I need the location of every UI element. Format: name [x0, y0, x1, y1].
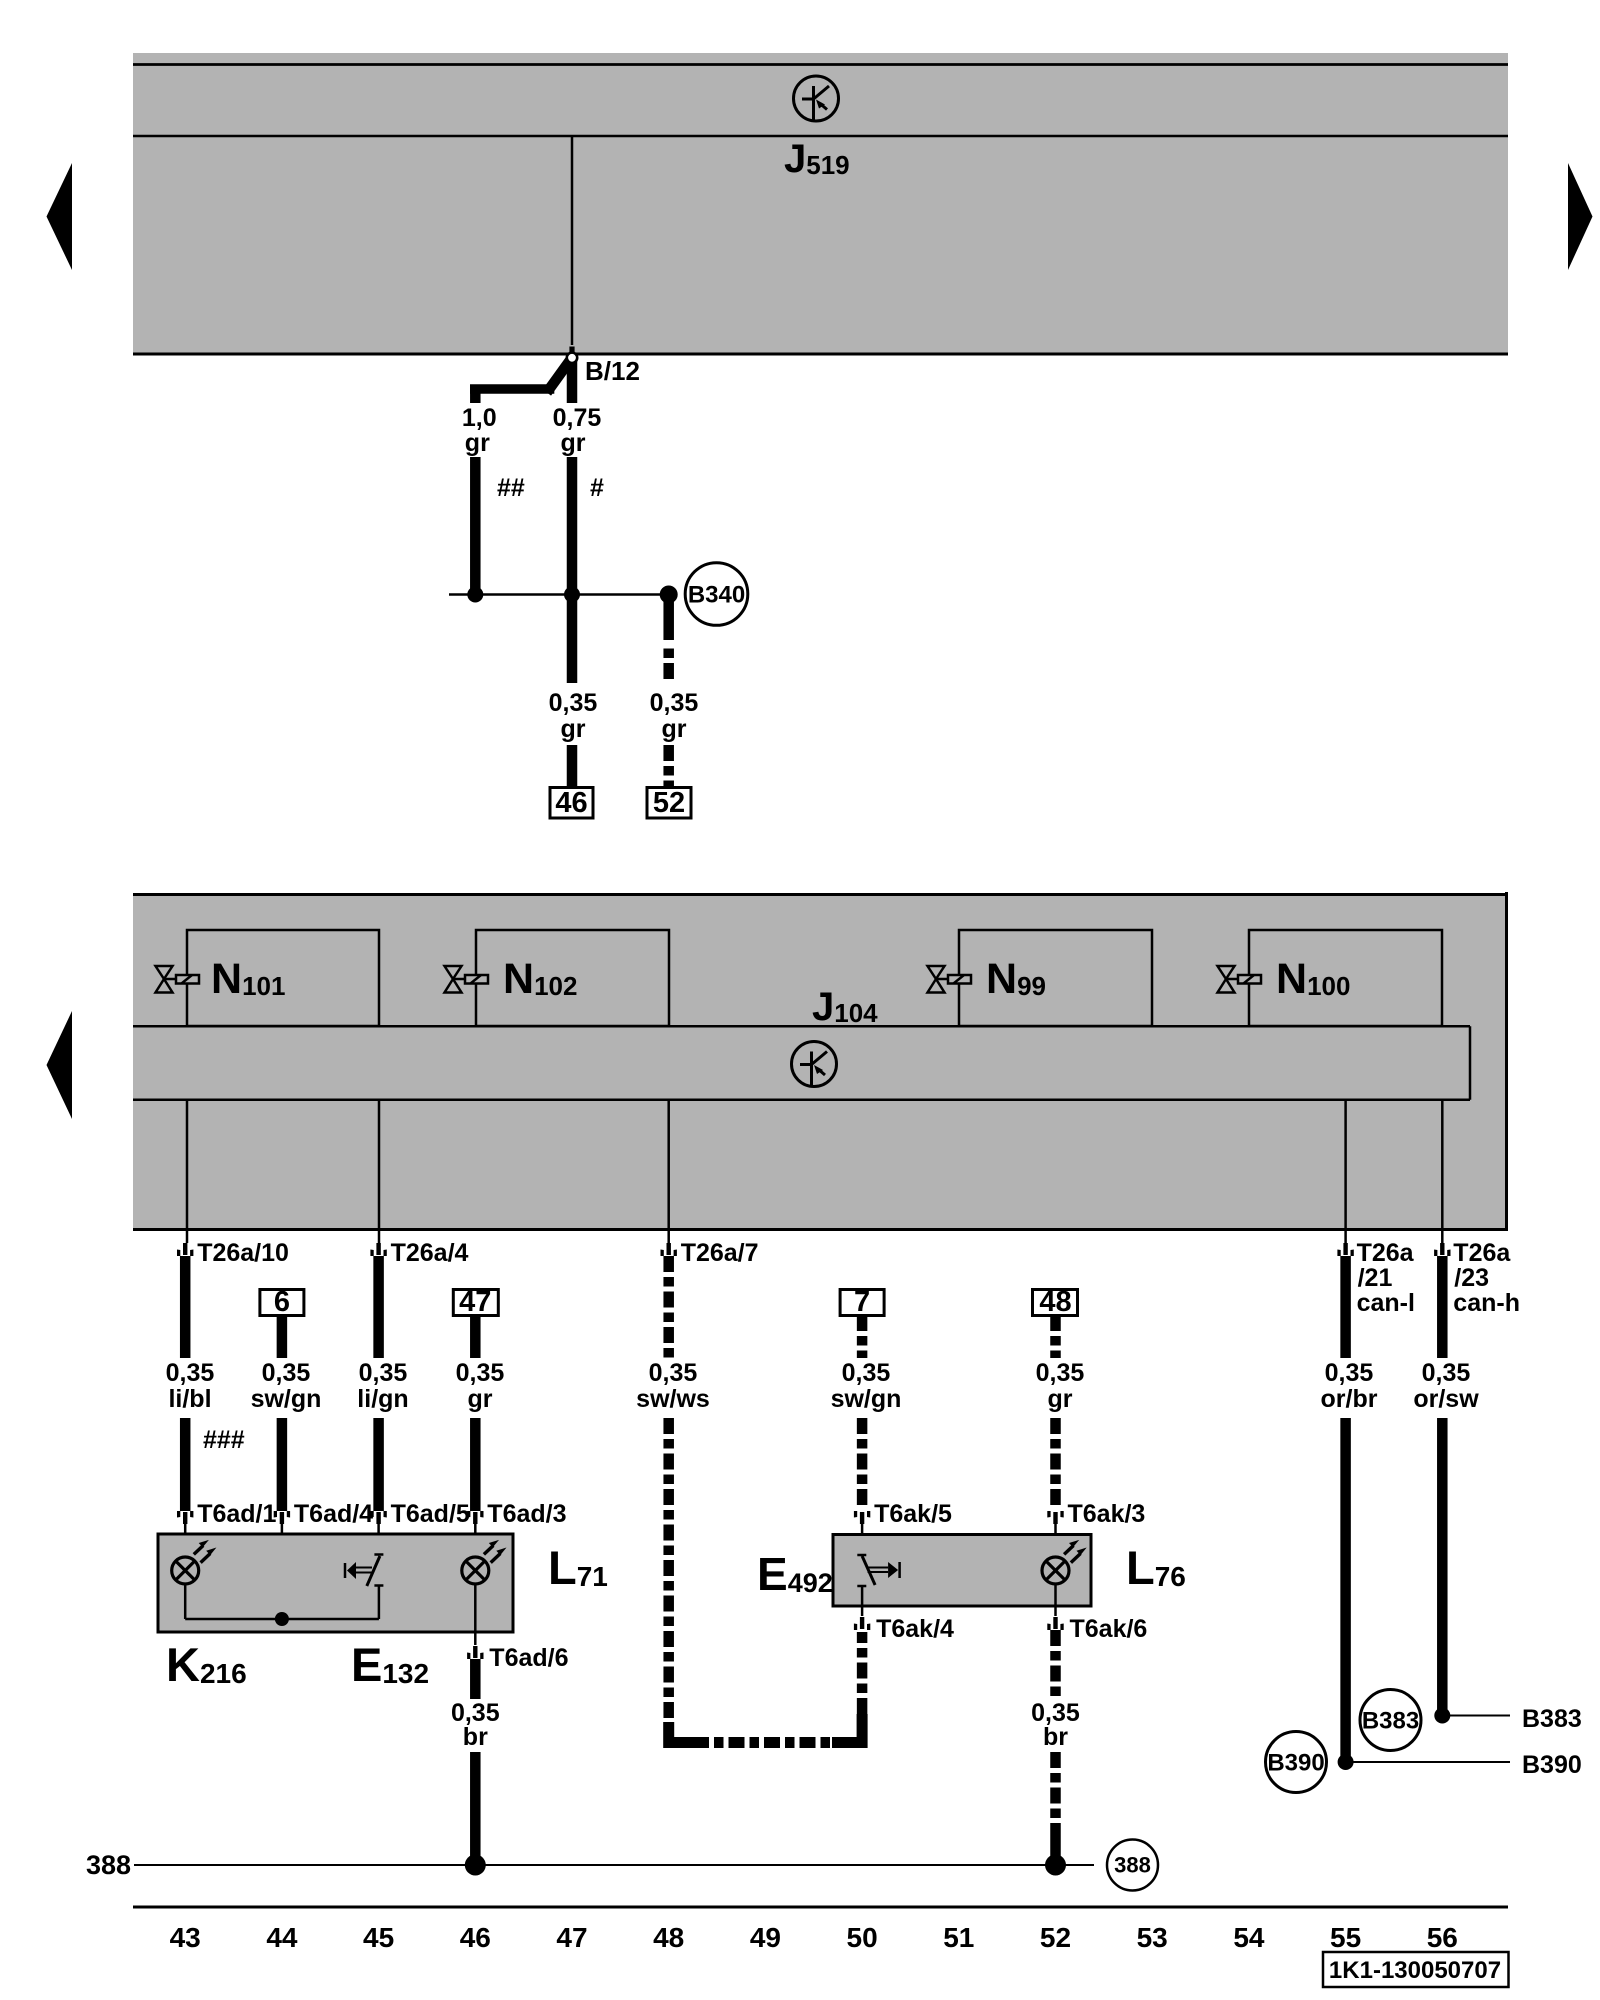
- lamp L71: [462, 1540, 507, 1584]
- wire or/sw lower: [1437, 1418, 1448, 1716]
- label N101: [211, 955, 285, 1003]
- svg-text:0,35: 0,35: [1325, 1359, 1374, 1387]
- switch E492: [857, 1555, 899, 1606]
- svg-text:gr: gr: [561, 429, 586, 457]
- wire 0,35 sw/ws upper: [663, 1256, 674, 1358]
- node line to B340: [449, 586, 678, 604]
- page arrow right top: [1568, 163, 1593, 270]
- terminal box 48: [1033, 1286, 1078, 1318]
- switch unit E492 L76 box: [833, 1535, 1091, 1607]
- svg-text:0,35: 0,35: [456, 1359, 505, 1387]
- lamp K216: [172, 1540, 217, 1584]
- svg-text:B390: B390: [1522, 1751, 1582, 1779]
- node B383: [1434, 1708, 1510, 1724]
- pin T6ad/4 connector: [274, 1511, 290, 1524]
- label E492: [757, 1548, 833, 1600]
- svg-text:li/gn: li/gn: [357, 1385, 408, 1413]
- svg-text:55: 55: [1330, 1922, 1361, 1953]
- svg-text:T6ad/6: T6ad/6: [489, 1644, 568, 1672]
- label T6ad/1: [197, 1500, 276, 1528]
- wire 0,35 br col46 upper: [470, 1659, 481, 1699]
- svg-text:sw/gn: sw/gn: [831, 1385, 902, 1413]
- label ##: [497, 474, 525, 502]
- pin T6ad/1 connector: [177, 1511, 193, 1524]
- terminal box 52: [647, 787, 691, 819]
- svg-text:E492: E492: [757, 1548, 833, 1600]
- label B/12: [585, 356, 640, 386]
- valve N101: [156, 930, 380, 1026]
- pin lines into E492 unit: [862, 1524, 1055, 1557]
- pin T26a/10 connector: [177, 1243, 193, 1256]
- svg-text:51: 51: [943, 1922, 974, 1953]
- svg-text:1K1-130050707: 1K1-130050707: [1329, 1957, 1501, 1984]
- ground line 388: [134, 1855, 1094, 1876]
- label T6ak/6: [1070, 1615, 1148, 1643]
- grid numbers 43-56: [170, 1922, 1458, 1953]
- svg-text:6: 6: [274, 1286, 290, 1318]
- pin T26a/23 connector: [1434, 1243, 1450, 1256]
- svg-text:1,0: 1,0: [462, 404, 497, 432]
- svg-text:T6ad/1: T6ad/1: [197, 1500, 276, 1528]
- pin T26a/7 connector: [661, 1243, 677, 1256]
- valve N99: [928, 930, 1153, 1026]
- label 0,35 sw/gn col44: [251, 1359, 322, 1413]
- lamp L76: [1042, 1540, 1087, 1584]
- svg-text:br: br: [463, 1723, 488, 1751]
- svg-text:li/bl: li/bl: [168, 1385, 211, 1413]
- svg-text:0,35: 0,35: [166, 1359, 215, 1387]
- svg-text:0,35: 0,35: [359, 1359, 408, 1387]
- svg-text:56: 56: [1427, 1922, 1458, 1953]
- svg-text:or/br: or/br: [1321, 1385, 1378, 1413]
- valve N102: [445, 930, 670, 1026]
- svg-text:0,35: 0,35: [650, 689, 699, 717]
- svg-text:52: 52: [653, 787, 685, 819]
- label T26a/4: [391, 1239, 469, 1267]
- connection 388 circle: [1107, 1840, 1158, 1891]
- internal bus in L71 unit: [185, 1584, 379, 1626]
- svg-text:T6ak/4: T6ak/4: [876, 1615, 954, 1643]
- wire inside J104 col45: [378, 1100, 381, 1243]
- pin T6ad/6 connector: [467, 1646, 483, 1659]
- svg-text:sw/ws: sw/ws: [636, 1385, 710, 1413]
- label 0,35 li/bl: [166, 1359, 215, 1413]
- svg-text:##: ##: [497, 474, 525, 502]
- svg-text:B390: B390: [1267, 1750, 1324, 1777]
- label 0,75 gr: [553, 404, 602, 457]
- svg-text:E132: E132: [351, 1638, 429, 1691]
- svg-text:B383: B383: [1522, 1705, 1582, 1733]
- multifunction unit K216 E132 L71 box: [158, 1534, 513, 1632]
- svg-text:gr: gr: [465, 429, 490, 457]
- label T6ad/5: [391, 1500, 470, 1528]
- pin T6ak/6 connector: [1047, 1617, 1063, 1630]
- label 0,35 gr col47: [549, 689, 598, 743]
- switch E132: [345, 1555, 383, 1620]
- svg-text:48: 48: [653, 1922, 684, 1953]
- label N100: [1276, 955, 1350, 1003]
- connection B383 circle: [1360, 1690, 1421, 1751]
- svg-text:br: br: [1043, 1723, 1068, 1751]
- svg-text:T6ad/4: T6ad/4: [294, 1500, 373, 1528]
- label T6ak/4: [876, 1615, 954, 1643]
- wire 0,35 sw/gn upper: [277, 1315, 288, 1358]
- label L71: [548, 1541, 608, 1594]
- svg-text:#: #: [590, 474, 604, 502]
- wire 0,35 sw/gn upper col50: [857, 1315, 868, 1358]
- wire gr lower col46: [470, 1418, 481, 1511]
- wire inside J104 col56: [1441, 1100, 1444, 1243]
- svg-text:B340: B340: [688, 582, 745, 609]
- label ###: [203, 1426, 245, 1454]
- label 0,35 gr col46: [456, 1359, 505, 1413]
- wire 0,35 br col46 lower: [470, 1752, 481, 1865]
- wire inside J104 col55: [1344, 1100, 1347, 1243]
- label T26a/7: [681, 1239, 759, 1267]
- svg-text:46: 46: [460, 1922, 491, 1953]
- label J519: [784, 137, 850, 181]
- label T6ad/6: [489, 1644, 568, 1672]
- label K216: [166, 1638, 247, 1691]
- pin T6ad/5 connector: [370, 1511, 386, 1524]
- label J104: [812, 985, 878, 1029]
- pin T6ad/3 connector: [467, 1511, 483, 1524]
- wire 0,35 gr upper col52: [1050, 1315, 1061, 1358]
- svg-text:0,35: 0,35: [649, 1359, 698, 1387]
- label T26a/10: [197, 1239, 289, 1267]
- wire inside J104 col48: [667, 1100, 670, 1243]
- wire 0,35 gr to terminal 46: [567, 745, 578, 788]
- control unit J104 body: [133, 892, 1508, 1231]
- lamp L71 output line: [474, 1584, 477, 1645]
- node B390: [1338, 1754, 1510, 1770]
- label 0,35 br col46: [451, 1699, 500, 1751]
- wire 0,35 gr dashed to terminal 52: [663, 745, 674, 788]
- svg-text:can-h: can-h: [1453, 1289, 1520, 1317]
- terminal box 47: [453, 1286, 498, 1318]
- wire inside J519 to pin B/12: [571, 136, 574, 345]
- pin T26a/4 connector: [370, 1243, 386, 1256]
- svg-text:47: 47: [459, 1286, 491, 1318]
- pin T6ak/4 connector: [854, 1617, 870, 1630]
- label 0,35 li/gn: [357, 1359, 408, 1413]
- terminal box 6: [260, 1286, 304, 1318]
- label 0,35 sw/gn col50: [831, 1359, 902, 1413]
- label T26a/21 can-l: [1357, 1239, 1415, 1317]
- wire 0,35 gr dashed upper: [663, 598, 674, 683]
- label #: [590, 474, 604, 502]
- wire 0,35 br col52 upper: [1050, 1630, 1061, 1699]
- svg-text:54: 54: [1233, 1922, 1265, 1953]
- svg-text:T6ak/3: T6ak/3: [1068, 1500, 1146, 1528]
- label 0,35 sw/ws: [636, 1359, 710, 1413]
- label 0,35 or/br: [1321, 1359, 1378, 1413]
- page arrow left top: [47, 163, 73, 270]
- svg-text:L71: L71: [548, 1541, 608, 1594]
- label T6ak/5: [874, 1500, 952, 1528]
- svg-text:7: 7: [854, 1286, 870, 1318]
- wire gr lower col52: [1050, 1418, 1061, 1508]
- label B390: [1522, 1751, 1582, 1779]
- svg-text:45: 45: [363, 1922, 394, 1953]
- terminal box 7: [840, 1286, 884, 1318]
- svg-text:T26a/4: T26a/4: [391, 1239, 469, 1267]
- label T6ak/3: [1068, 1500, 1146, 1528]
- svg-text:49: 49: [750, 1922, 781, 1953]
- pin B/12 connector: [567, 347, 577, 363]
- label 0,35 or/sw: [1413, 1359, 1479, 1413]
- label L76: [1126, 1541, 1186, 1594]
- label 0,35 br col52: [1031, 1699, 1080, 1751]
- svg-text:T26a: T26a: [1453, 1239, 1511, 1267]
- svg-text:388: 388: [86, 1850, 131, 1880]
- wire 0,35 br col52 lower: [1050, 1752, 1061, 1865]
- svg-text:gr: gr: [561, 715, 586, 743]
- svg-text:50: 50: [847, 1922, 878, 1953]
- label T6ad/4: [294, 1500, 373, 1528]
- wire sw/ws dashed run: [669, 1418, 862, 1743]
- lamp L76 lines: [1054, 1584, 1057, 1617]
- wire 0,35 or/sw upper: [1437, 1256, 1448, 1358]
- svg-text:T26a/10: T26a/10: [197, 1239, 289, 1267]
- page arrow left bottom: [47, 1011, 73, 1119]
- pin lines into L71 unit: [185, 1524, 475, 1619]
- svg-text:47: 47: [556, 1922, 587, 1953]
- bottom scale line: [133, 1906, 1508, 1909]
- svg-text:gr: gr: [662, 715, 687, 743]
- svg-text:0,35: 0,35: [842, 1359, 891, 1387]
- svg-text:T6ad/5: T6ad/5: [391, 1500, 470, 1528]
- svg-text:0,35: 0,35: [262, 1359, 311, 1387]
- svg-text:44: 44: [266, 1922, 298, 1953]
- label 388 left: [86, 1850, 131, 1880]
- svg-text:L76: L76: [1126, 1541, 1186, 1594]
- svg-text:/23: /23: [1454, 1264, 1489, 1292]
- wire sw/gn lower col50: [857, 1418, 868, 1508]
- svg-text:53: 53: [1137, 1922, 1168, 1953]
- svg-text:sw/gn: sw/gn: [251, 1385, 322, 1413]
- wire li/bl lower: [180, 1418, 191, 1511]
- svg-text:52: 52: [1040, 1922, 1071, 1953]
- wire 0,35 li/gn upper: [373, 1256, 384, 1358]
- label 0,35 gr col52: [1036, 1359, 1085, 1413]
- connection B390 circle: [1266, 1732, 1327, 1793]
- switch E492 output line: [861, 1606, 864, 1616]
- control unit J519 body: [133, 53, 1508, 355]
- svg-text:T26a: T26a: [1357, 1239, 1415, 1267]
- wire 0,75 gr upper: [567, 457, 578, 683]
- wire sw/gn lower col44: [277, 1418, 288, 1511]
- pin T6ak/3 connector: [1047, 1511, 1063, 1524]
- svg-text:B383: B383: [1362, 1708, 1419, 1735]
- svg-text:T6ak/5: T6ak/5: [874, 1500, 952, 1528]
- svg-text:46: 46: [555, 787, 587, 819]
- svg-text:###: ###: [203, 1426, 245, 1454]
- label N102: [503, 955, 577, 1003]
- svg-text:388: 388: [1114, 1853, 1151, 1878]
- svg-text:can-l: can-l: [1357, 1289, 1415, 1317]
- svg-text:48: 48: [1039, 1286, 1071, 1318]
- wire 0,35 gr upper col46: [470, 1315, 481, 1358]
- svg-text:B/12: B/12: [585, 356, 640, 386]
- svg-text:or/sw: or/sw: [1413, 1385, 1479, 1413]
- svg-text:0,35: 0,35: [1422, 1359, 1471, 1387]
- label E132: [351, 1638, 429, 1691]
- svg-text:gr: gr: [468, 1385, 493, 1413]
- connection B340: [685, 563, 748, 626]
- wire or/br lower: [1340, 1418, 1351, 1762]
- label 0,35 gr col48: [650, 689, 699, 743]
- label T26a/23 can-h: [1453, 1239, 1520, 1317]
- svg-text:0,35: 0,35: [549, 689, 598, 717]
- svg-text:T26a/7: T26a/7: [681, 1239, 759, 1267]
- label T6ad/3: [487, 1500, 566, 1528]
- svg-text:/21: /21: [1358, 1264, 1393, 1292]
- wire 0,35 li/bl upper: [180, 1256, 191, 1358]
- label 1,0 gr: [462, 404, 497, 457]
- control unit symbol J519: [794, 76, 839, 121]
- terminal box 46: [550, 787, 593, 819]
- wire inside J104 col43: [186, 1100, 189, 1243]
- label N99: [986, 955, 1046, 1003]
- pin T6ak/5 connector: [854, 1511, 870, 1524]
- svg-text:T6ad/3: T6ad/3: [487, 1500, 566, 1528]
- svg-text:0,75: 0,75: [553, 404, 602, 432]
- svg-text:gr: gr: [1048, 1385, 1073, 1413]
- wire 1,0 gr: [470, 457, 481, 595]
- control unit symbol J104: [792, 1042, 837, 1087]
- pin T26a/21 connector: [1337, 1243, 1353, 1256]
- label B383: [1522, 1705, 1582, 1733]
- valve N100: [1218, 930, 1443, 1026]
- wire 0,35 or/br upper: [1340, 1256, 1351, 1358]
- wire li/gn lower: [373, 1418, 384, 1511]
- diagram number box: [1323, 1952, 1509, 1987]
- wire split below B/12: [470, 359, 572, 403]
- svg-text:T6ak/6: T6ak/6: [1070, 1615, 1148, 1643]
- svg-text:K216: K216: [166, 1638, 247, 1691]
- svg-text:43: 43: [170, 1922, 201, 1953]
- svg-text:0,35: 0,35: [1036, 1359, 1085, 1387]
